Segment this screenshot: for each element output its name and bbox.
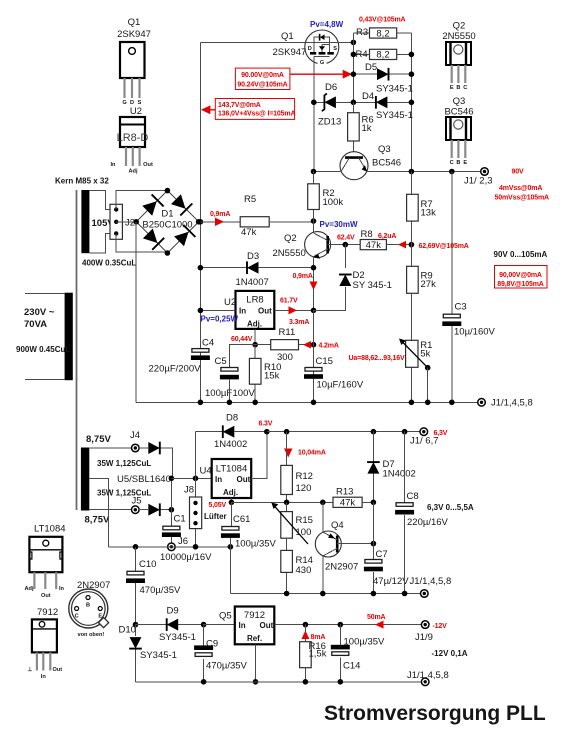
- svg-text:15k: 15k: [264, 371, 280, 382]
- transistor Q3 package BC546 TO-92: [444, 96, 473, 166]
- svg-text:Q4: Q4: [331, 520, 344, 531]
- wire Q4 collector down: [322, 556, 324, 594]
- red callout 90,00V box right: [495, 266, 548, 289]
- junction base-D2 node: [343, 242, 349, 248]
- svg-text:2N2907: 2N2907: [325, 562, 358, 573]
- transistor Q4 2N2907 schematic: [315, 520, 358, 573]
- regulator Q5 7912 box: [219, 607, 274, 645]
- svg-text:6,3V 0...5,5A: 6,3V 0...5,5A: [427, 503, 474, 512]
- junction D3 left: [198, 265, 204, 271]
- terminal J6 on ground rail: [168, 536, 188, 551]
- junction Adj node: [252, 342, 258, 348]
- junction U5 output: [169, 507, 175, 513]
- svg-text:In: In: [59, 586, 65, 592]
- svg-text:Q3: Q3: [453, 96, 466, 107]
- svg-text:400W 0.35CuL: 400W 0.35CuL: [82, 259, 136, 268]
- wire Q2 collector: [313, 221, 315, 233]
- svg-text:Q1: Q1: [128, 17, 141, 28]
- junction R12-R15-Adj: [284, 500, 290, 506]
- svg-text:In: In: [215, 475, 222, 484]
- svg-text:35W 1,125CuL: 35W 1,125CuL: [97, 489, 151, 498]
- junction gnd C7: [371, 591, 377, 597]
- transistor Q4 package 2N2907 TO-18 top view: [69, 580, 110, 638]
- wire Q4 base right: [337, 543, 373, 545]
- svg-text:B: B: [86, 603, 90, 609]
- capacitor C1 10000u/16V: [160, 514, 212, 564]
- junction Out node: [311, 308, 317, 314]
- wire Q2 emitter down: [313, 257, 315, 311]
- junction R3 left: [351, 52, 357, 58]
- svg-text:470µ/35V: 470µ/35V: [140, 585, 182, 596]
- junction 90V rail top: [449, 169, 455, 175]
- svg-text:100µ/35V: 100µ/35V: [344, 637, 386, 648]
- regulator U2 LR8 box: [224, 291, 274, 329]
- transistor Q2 2N5550 schematic: [273, 232, 331, 259]
- junction -12V gnd C9: [201, 679, 207, 685]
- wire LT1084 Adj down: [230, 498, 232, 502]
- svg-text:230V ~: 230V ~: [24, 307, 55, 318]
- bridge rectifier D1 B250C1000: [136, 191, 198, 253]
- svg-text:C: C: [75, 614, 79, 620]
- diode D2 SY 345-1: [314, 245, 392, 311]
- svg-text:Out: Out: [237, 475, 251, 484]
- junction In row left: [169, 476, 175, 482]
- svg-text:In: In: [111, 162, 117, 168]
- wire rail corner down: [229, 547, 231, 594]
- svg-text:Q1: Q1: [281, 31, 294, 42]
- wire 6.3V ground rail: [230, 593, 420, 595]
- svg-text:8,2: 8,2: [376, 28, 389, 39]
- terminal J5: [132, 496, 142, 514]
- svg-text:6.3V: 6.3V: [259, 421, 273, 428]
- diode D9 SY345-1: [136, 606, 204, 644]
- wire Q4 emitter up: [322, 502, 324, 532]
- wire winding top to J4: [89, 447, 131, 449]
- svg-text:J2: J2: [125, 218, 135, 229]
- wire J2 pin2 to bridge left: [116, 221, 136, 223]
- red arrow 4.2mA: [303, 341, 339, 350]
- svg-text:50mVss@105mA: 50mVss@105mA: [495, 195, 550, 202]
- wire mid ground rail: [109, 546, 231, 548]
- svg-text:136,0V+4Vss@ I=105mA: 136,0V+4Vss@ I=105mA: [218, 111, 295, 118]
- wire Adj to C5 jog: [229, 345, 255, 368]
- wire D8 branch up: [196, 432, 223, 479]
- capacitor C5 100uF 100V: [205, 356, 255, 399]
- junction -12V gnd R16: [303, 679, 309, 685]
- svg-text:C9: C9: [206, 639, 218, 650]
- wire Q2 base to R8: [328, 244, 361, 246]
- svg-text:Ref.: Ref.: [247, 634, 262, 643]
- capacitor C14 100u/35V: [331, 625, 385, 682]
- svg-text:5,05V: 5,05V: [209, 502, 227, 509]
- svg-text:J1/1,4,5,8: J1/1,4,5,8: [491, 398, 533, 409]
- svg-text:-12V 0,1A: -12V 0,1A: [432, 649, 468, 658]
- junction rail J8 return: [193, 544, 199, 550]
- junction Q2 emitter-D3: [311, 265, 317, 271]
- svg-text:⊥: ⊥: [28, 666, 33, 673]
- svg-text:C: C: [450, 160, 454, 166]
- svg-text:470µ/35V: 470µ/35V: [206, 661, 248, 672]
- svg-text:Q3: Q3: [378, 144, 391, 155]
- svg-text:47k: 47k: [241, 227, 257, 238]
- svg-text:Pv=0,25W: Pv=0,25W: [201, 315, 239, 324]
- svg-text:J1/1,4,5,8: J1/1,4,5,8: [410, 576, 452, 587]
- svg-text:ZD13: ZD13: [318, 117, 341, 128]
- svg-text:D10: D10: [119, 625, 136, 636]
- wire C5 down: [228, 379, 230, 403]
- svg-text:B250C1000: B250C1000: [142, 220, 192, 231]
- svg-text:R12: R12: [296, 471, 313, 482]
- svg-text:SY345-1: SY345-1: [159, 632, 196, 643]
- wire C3 down: [451, 326, 453, 402]
- junction raw rail at bridge: [198, 219, 204, 225]
- svg-text:47µ/12V: 47µ/12V: [373, 576, 409, 587]
- svg-text:70VA: 70VA: [24, 319, 47, 330]
- capacitor C10 470u/35V: [126, 547, 181, 625]
- svg-text:100: 100: [296, 527, 312, 538]
- svg-text:2SK947: 2SK947: [273, 47, 307, 58]
- svg-text:C10: C10: [139, 559, 156, 570]
- wire bridge plus to R5: [200, 221, 240, 223]
- svg-text:62,69V@105mA: 62,69V@105mA: [419, 243, 469, 250]
- resistor R4 8,2: [353, 49, 411, 61]
- svg-text:61.7V: 61.7V: [280, 298, 298, 305]
- svg-text:von oben!: von oben!: [78, 632, 105, 638]
- svg-text:90.00V@0mA: 90.00V@0mA: [241, 72, 284, 79]
- terminal J4: [130, 430, 140, 452]
- svg-text:10µF/160V: 10µF/160V: [317, 380, 364, 391]
- svg-text:D9: D9: [167, 606, 179, 617]
- svg-text:1,5k: 1,5k: [309, 649, 327, 660]
- junction 6.3V R12: [284, 429, 290, 435]
- svg-text:LT1084: LT1084: [216, 464, 248, 475]
- svg-text:Out: Out: [260, 621, 274, 630]
- junction rail R1: [409, 400, 415, 406]
- svg-text:100k: 100k: [323, 197, 344, 208]
- junction rail wiper: [425, 400, 431, 406]
- capacitor C4 220uF/200V: [149, 338, 215, 375]
- wire Q1 drain from raw rail: [200, 41, 305, 43]
- capacitor C3 10u/160V: [442, 302, 495, 338]
- svg-text:Adj: Adj: [25, 586, 34, 592]
- wire -12V ground rail: [136, 681, 422, 683]
- junction bridge bottom: [165, 250, 171, 256]
- svg-text:C61: C61: [233, 514, 250, 525]
- svg-text:1N4007: 1N4007: [236, 277, 269, 288]
- svg-text:2N5550: 2N5550: [442, 31, 475, 42]
- wire bridge minus rail down: [135, 222, 137, 402]
- junction C9 top: [201, 622, 207, 628]
- svg-text:Adj.: Adj.: [247, 320, 262, 329]
- wire Q3 collector-emitter row: [314, 171, 481, 173]
- svg-text:Q2: Q2: [284, 233, 297, 244]
- regulator Q5 package 7912 TO-220: [28, 607, 63, 680]
- wire winding center tap: [89, 478, 108, 547]
- svg-text:0,9mA: 0,9mA: [210, 211, 230, 218]
- svg-text:-12V: -12V: [433, 623, 448, 630]
- resistor R6 1k: [348, 102, 374, 156]
- junction rail C4: [198, 400, 204, 406]
- svg-text:1N4002: 1N4002: [383, 469, 416, 480]
- junction Adj dot: [229, 500, 235, 506]
- junction D9-D10 node: [133, 622, 139, 628]
- junction bridge top: [165, 188, 171, 194]
- junction R2 bottom: [311, 218, 317, 224]
- wire divider rail lower: [410, 293, 412, 402]
- capacitor C7 47u/12V: [364, 544, 409, 594]
- svg-text:0,9mA: 0,9mA: [293, 273, 313, 280]
- junction LR8 In: [198, 308, 204, 314]
- svg-text:13k: 13k: [421, 208, 437, 219]
- diode U5 bottom Schottky: [139, 503, 171, 516]
- svg-text:0,43V@105mA: 0,43V@105mA: [359, 17, 406, 24]
- wire emitter node down rail: [313, 310, 315, 402]
- svg-text:J4: J4: [130, 430, 140, 441]
- svg-text:LR8: LR8: [246, 295, 263, 306]
- connector J8 Luefter: [184, 485, 227, 529]
- svg-text:J6: J6: [178, 536, 188, 547]
- svg-text:Adj.: Adj.: [223, 488, 238, 497]
- svg-text:Out: Out: [53, 667, 63, 673]
- bridge diode top-right: [171, 194, 192, 215]
- potentiometer R1 5k: [399, 339, 432, 368]
- terminal J1/2,3: [464, 168, 493, 187]
- diode D7 1N4002: [367, 432, 416, 503]
- resistor R3 8,2: [353, 27, 411, 39]
- svg-text:Stromversorgung PLL: Stromversorgung PLL: [324, 702, 546, 725]
- svg-text:89,8V@105mA: 89,8V@105mA: [497, 281, 544, 288]
- wire D7 column to base: [372, 502, 374, 543]
- svg-text:R11: R11: [279, 327, 296, 338]
- transistor Q1 package 2SK947 TO-220 top-left: [117, 17, 151, 106]
- wire LR8 Out to node: [274, 309, 313, 311]
- junction base-C7-D7: [371, 541, 377, 547]
- junction rail C10: [133, 544, 139, 550]
- junction D5 left: [351, 71, 357, 77]
- resistor R13 47k: [333, 487, 362, 509]
- svg-text:C5: C5: [215, 356, 227, 367]
- regulator U4 package LT1084 TO-220: [25, 524, 66, 600]
- svg-text:C4: C4: [202, 338, 214, 349]
- junction R11 right: [311, 342, 317, 348]
- svg-text:8mA: 8mA: [311, 634, 326, 641]
- transformer secondary winding 105V: [81, 190, 136, 268]
- svg-text:10000µ/16V: 10000µ/16V: [160, 552, 212, 563]
- zener D6 ZD13: [314, 82, 354, 128]
- wire raw DC rail vertical: [199, 42, 201, 402]
- svg-text:SY345-1: SY345-1: [376, 110, 413, 121]
- svg-text:C15: C15: [316, 356, 333, 367]
- junction R1 wiper: [425, 365, 431, 371]
- svg-text:J1/1,4,5,8: J1/1,4,5,8: [407, 670, 449, 681]
- junction D4 right: [409, 100, 415, 106]
- svg-text:Out: Out: [143, 162, 153, 168]
- svg-text:D1: D1: [161, 209, 173, 220]
- junction D6-D4 mid: [351, 100, 357, 106]
- svg-text:Ua=88,62...93,16V: Ua=88,62...93,16V: [349, 355, 406, 362]
- svg-text:BC546: BC546: [444, 107, 473, 118]
- red arrow 6,2uA: [378, 233, 406, 248]
- bridge diode top-left: [142, 194, 163, 215]
- svg-text:90,00V@0mA: 90,00V@0mA: [499, 272, 542, 279]
- capacitor C15 10uF/160V: [304, 356, 364, 391]
- svg-text:Adj: Adj: [128, 169, 137, 175]
- svg-text:Lüfter: Lüfter: [204, 512, 227, 521]
- terminal J1/1,4,5,8 upper: [478, 398, 533, 409]
- svg-text:47k: 47k: [366, 240, 382, 251]
- svg-text:G: G: [320, 60, 324, 66]
- red arrow 0,9mA at bridge output: [210, 211, 230, 226]
- svg-text:In: In: [239, 621, 246, 630]
- svg-text:7912: 7912: [37, 607, 58, 618]
- svg-text:1k: 1k: [362, 123, 372, 134]
- wire upper ground rail: [136, 401, 478, 403]
- mosfet Q1 2SK947 symbol: [305, 30, 339, 66]
- diode D5 SY345-1: [353, 62, 413, 95]
- junction In-D8-J8: [193, 476, 199, 482]
- svg-text:100µ/35V: 100µ/35V: [235, 539, 277, 550]
- regulator U2 package LR8 TO-252: [111, 106, 153, 175]
- resistor R12 120: [281, 432, 313, 503]
- svg-text:900W 0.45CuL: 900W 0.45CuL: [16, 345, 70, 354]
- svg-text:S: S: [333, 46, 337, 52]
- svg-text:100µF: 100µF: [205, 388, 232, 399]
- svg-text:C8: C8: [407, 491, 419, 502]
- red arrow 0,9mA down at emitter: [293, 273, 318, 290]
- junction -12V gnd C14: [338, 679, 344, 685]
- junction source rail: [351, 40, 357, 46]
- wire In row: [171, 477, 211, 479]
- svg-text:BC546: BC546: [372, 158, 401, 169]
- svg-text:90.24V@105mA: 90.24V@105mA: [237, 82, 287, 89]
- junction gnd Q4: [320, 591, 326, 597]
- svg-text:J5: J5: [132, 496, 142, 507]
- red arrow 61.7V out: [280, 298, 309, 327]
- svg-text:8,2: 8,2: [376, 50, 389, 61]
- resistor R9 27k: [407, 266, 436, 293]
- red callout arrow to raw rail: [201, 105, 215, 114]
- junction R7 top: [409, 169, 415, 175]
- svg-text:J1/ 2,3: J1/ 2,3: [464, 176, 493, 187]
- junction gnd C8: [402, 591, 408, 597]
- svg-text:Q5: Q5: [219, 611, 232, 622]
- junction rail C5: [227, 400, 233, 406]
- svg-text:R15: R15: [296, 515, 313, 526]
- svg-text:C14: C14: [343, 661, 360, 672]
- red arrow 8mA up: [301, 631, 325, 642]
- svg-text:8,75V: 8,75V: [86, 434, 111, 445]
- svg-text:SY345-1: SY345-1: [376, 84, 413, 95]
- terminal J1/1,4,5,8 mid: [410, 576, 452, 597]
- terminal J1/6,7: [410, 428, 439, 447]
- capacitor C8 220u/16V: [395, 432, 448, 594]
- svg-text:U4: U4: [200, 466, 212, 477]
- diode U5 top Schottky: [139, 442, 172, 479]
- wire C61 to rail: [229, 538, 231, 547]
- svg-text:Q2: Q2: [453, 21, 466, 32]
- svg-text:4.2mA: 4.2mA: [319, 343, 339, 350]
- svg-text:C7: C7: [376, 549, 388, 560]
- svg-text:220µ/16V: 220µ/16V: [407, 517, 449, 528]
- svg-text:U2: U2: [130, 106, 142, 117]
- wire 90V rail down to C3: [451, 172, 453, 315]
- junction D6 left: [311, 100, 317, 106]
- svg-text:R4: R4: [356, 49, 368, 60]
- svg-text:62.4V: 62.4V: [337, 235, 355, 242]
- resistor R7 13k: [407, 172, 436, 267]
- wire left rail R3-R6: [352, 33, 354, 102]
- svg-text:R3: R3: [356, 27, 368, 38]
- resistor R8 47k: [360, 229, 386, 251]
- wire Adj row: [231, 501, 373, 503]
- diode D3 1N4007: [200, 251, 313, 288]
- svg-text:60,44V: 60,44V: [231, 336, 253, 343]
- junction rail R10: [252, 400, 258, 406]
- svg-text:8,75V: 8,75V: [85, 515, 110, 526]
- diode D10 SY345-1: [119, 625, 177, 682]
- wire 7912 Out row: [274, 624, 421, 626]
- transistor Q3 BC546 schematic: [340, 144, 401, 180]
- wire J2 pin3 to bridge bottom: [116, 234, 167, 252]
- wire C15 down: [313, 379, 315, 403]
- junction 6.3V C8: [402, 429, 408, 435]
- svg-text:10µ/160V: 10µ/160V: [454, 327, 496, 338]
- svg-text:5k: 5k: [420, 349, 430, 360]
- svg-text:3.3mA: 3.3mA: [289, 319, 309, 326]
- wire Q1 source to right rail: [339, 41, 354, 43]
- svg-text:90V: 90V: [512, 169, 524, 176]
- svg-text:J8: J8: [184, 485, 194, 496]
- wire J8 branch down: [195, 478, 197, 547]
- junction R4 right: [409, 52, 415, 58]
- svg-text:2N5550: 2N5550: [273, 248, 306, 259]
- svg-text:B: B: [456, 160, 460, 166]
- svg-text:In: In: [239, 307, 246, 316]
- svg-text:D5: D5: [365, 62, 377, 73]
- red arrow 10,04mA: [284, 449, 326, 458]
- svg-text:6,2uA: 6,2uA: [378, 233, 396, 240]
- svg-text:D: D: [308, 46, 312, 52]
- junction Ref gnd: [253, 679, 259, 685]
- wire 6.3V row: [267, 431, 420, 433]
- svg-text:4mVss@0mA: 4mVss@0mA: [499, 185, 542, 192]
- resistor R2 100k: [308, 172, 344, 222]
- svg-text:Kern M85 x 32: Kern M85 x 32: [55, 177, 109, 186]
- svg-text:6,3V: 6,3V: [434, 430, 448, 437]
- svg-text:D6: D6: [325, 82, 337, 93]
- diode D4 SY345-1: [353, 91, 413, 121]
- wire R1 wiper down: [427, 368, 429, 403]
- regulator U4 LT1084 box: [200, 459, 252, 498]
- svg-text:27k: 27k: [421, 279, 437, 290]
- wire R8 right to divider rail: [386, 244, 411, 246]
- junction bridge right: [196, 219, 202, 225]
- svg-text:E: E: [450, 85, 454, 91]
- svg-text:430: 430: [296, 565, 312, 576]
- junction divider mid: [409, 242, 415, 248]
- svg-text:SY 345-1: SY 345-1: [353, 280, 392, 291]
- red callout 143.7V box: [215, 99, 295, 120]
- svg-text:Pv=30mW: Pv=30mW: [320, 220, 358, 229]
- transformer core: [76, 190, 78, 510]
- svg-text:Out: Out: [41, 593, 51, 599]
- wire Out node up-right jog to D2: [314, 309, 346, 311]
- diode D8 1N4002: [214, 413, 267, 451]
- svg-text:In: In: [41, 674, 47, 680]
- wire right rail R3-D4: [410, 33, 412, 172]
- terminal J1/9: [415, 621, 433, 643]
- junction 6.3V Out: [264, 429, 270, 435]
